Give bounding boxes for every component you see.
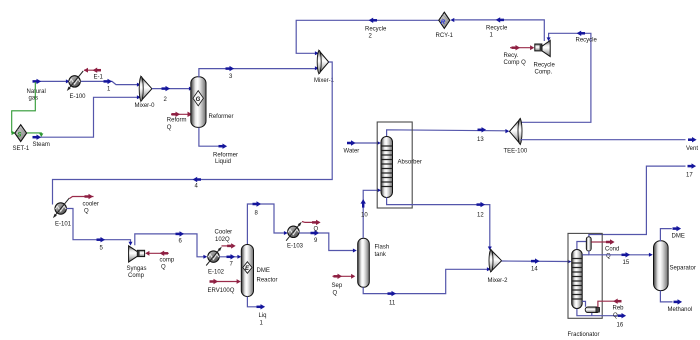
energy stream Recy Comp Q — [504, 45, 535, 66]
svg-text:Q: Q — [167, 125, 172, 131]
mixer Mixer-2 — [488, 250, 509, 284]
svg-text:Recycle: Recycle — [576, 38, 598, 44]
svg-text:Cond: Cond — [605, 247, 619, 253]
wire stream Liq 1 — [247, 297, 266, 327]
heat exchanger E-103 — [286, 222, 304, 250]
wire stream 9 — [299, 230, 357, 252]
svg-text:RCY-1: RCY-1 — [436, 33, 454, 39]
svg-text:102Q: 102Q — [215, 237, 230, 243]
mixer Mixer-0 — [135, 76, 156, 109]
svg-text:S: S — [17, 133, 21, 139]
energy stream comp Q — [145, 251, 175, 271]
svg-text:Recycle: Recycle — [365, 27, 387, 33]
column Fractionator tower — [572, 250, 583, 309]
svg-text:Mixer-1: Mixer-1 — [314, 78, 335, 84]
wire stream 3 — [199, 66, 319, 80]
svg-text:Q: Q — [84, 209, 89, 215]
svg-text:TEE-100: TEE-100 — [504, 149, 528, 155]
svg-text:Comp Q: Comp Q — [504, 60, 527, 66]
condenser (Fractionator) — [577, 237, 591, 251]
svg-text:Comp: Comp — [128, 273, 145, 279]
energy stream Q (E-103) — [302, 220, 321, 233]
svg-text:Mixer-2: Mixer-2 — [488, 278, 509, 284]
svg-text:Methanol: Methanol — [668, 307, 693, 313]
svg-text:Liq: Liq — [259, 313, 267, 319]
svg-text:Reform: Reform — [167, 118, 187, 124]
svg-text:cooler: cooler — [83, 202, 99, 208]
svg-text:Fractionator: Fractionator — [568, 332, 600, 338]
wire stream 6 — [135, 231, 208, 259]
svg-text:10: 10 — [361, 212, 368, 218]
wire stream 10 — [361, 188, 382, 238]
vessel Separator — [654, 241, 696, 291]
compressor Syngas Comp — [127, 246, 147, 279]
svg-text:16: 16 — [617, 323, 624, 329]
svg-text:G: G — [196, 97, 201, 103]
svg-text:Q: Q — [613, 313, 618, 319]
wire stream 11 — [363, 267, 491, 306]
svg-text:Recy.: Recy. — [504, 53, 519, 59]
svg-text:Sep: Sep — [332, 283, 343, 289]
column Fractionator (box) — [568, 233, 603, 338]
energy stream Cooler 102Q — [215, 230, 236, 249]
wire stream 4 — [53, 62, 333, 205]
tee TEE-100 — [504, 119, 528, 155]
reboiler (Fractionator) — [577, 301, 617, 315]
reactor Reformer — [191, 77, 234, 128]
svg-text:gas: gas — [29, 96, 39, 102]
svg-text:Reactor: Reactor — [257, 278, 278, 284]
mixer Mixer-1 — [314, 51, 335, 85]
svg-text:Flash: Flash — [375, 245, 390, 251]
energy stream Cond Q — [591, 239, 619, 259]
wire stream 16 — [617, 313, 627, 329]
energy stream Reb Q — [598, 299, 624, 320]
svg-text:Vent: Vent — [686, 146, 698, 152]
wire stream 13 — [387, 127, 510, 143]
energy stream Reform Q — [167, 112, 193, 131]
svg-text:E-101: E-101 — [55, 222, 72, 228]
wire stream 1 — [80, 79, 140, 93]
svg-text:15: 15 — [623, 260, 630, 266]
wire stream Recycle 1 — [450, 17, 544, 41]
svg-text:E-102: E-102 — [208, 270, 225, 276]
wire stream 12 — [387, 197, 492, 250]
energy stream Sep Q — [332, 274, 356, 297]
energy stream E-1 — [84, 68, 104, 81]
vessel Flash tank — [358, 238, 389, 287]
compressor Recycle Comp — [534, 40, 556, 75]
logical operator SET-1 — [13, 125, 30, 152]
svg-text:SET-1: SET-1 — [13, 146, 30, 152]
svg-text:ERV100Q: ERV100Q — [208, 288, 235, 294]
svg-text:Cooler: Cooler — [215, 230, 233, 236]
svg-text:Reb: Reb — [613, 306, 625, 312]
wire stream 5 — [67, 209, 133, 252]
heat exchanger E-101 — [53, 198, 72, 227]
heat exchanger E-102 — [206, 247, 224, 276]
wire stream Water — [344, 140, 381, 154]
wire stream Natural gas — [27, 79, 70, 102]
svg-text:Steam: Steam — [33, 142, 50, 148]
svg-text:Liquid: Liquid — [215, 159, 231, 165]
svg-text:Q: Q — [333, 290, 338, 296]
svg-text:Separator: Separator — [670, 266, 696, 272]
svg-text:E-100: E-100 — [70, 94, 87, 100]
svg-text:Q: Q — [161, 265, 166, 271]
wire stream 17 — [589, 163, 696, 236]
wire stream Methanol — [660, 291, 692, 314]
svg-text:Absorber: Absorber — [398, 160, 422, 166]
svg-text:tank: tank — [375, 252, 387, 258]
column Absorber — [377, 122, 422, 208]
wire stream 8 — [247, 201, 287, 244]
svg-text:Recycle: Recycle — [486, 26, 508, 32]
svg-text:Water: Water — [344, 149, 360, 155]
recycle operator RCY-1 — [436, 12, 454, 39]
svg-text:14: 14 — [531, 267, 538, 273]
wire stream 7 — [220, 254, 242, 267]
svg-text:R: R — [441, 20, 446, 26]
wire stream 2 — [152, 86, 193, 103]
svg-text:17: 17 — [686, 173, 693, 179]
heat exchanger E-100 — [67, 71, 86, 100]
svg-text:12: 12 — [477, 213, 484, 219]
svg-text:Reformer: Reformer — [209, 114, 234, 120]
wire stream 15 — [582, 251, 653, 266]
wire stream Reformer Liquid — [199, 128, 238, 166]
svg-text:11: 11 — [389, 301, 396, 307]
svg-text:DME: DME — [257, 268, 270, 274]
SET connection wires (green) — [12, 82, 44, 137]
svg-text:E-103: E-103 — [287, 244, 304, 250]
svg-text:DME: DME — [672, 233, 685, 239]
svg-text:Syngas: Syngas — [127, 266, 147, 272]
reactor DME Reactor — [241, 245, 277, 297]
svg-text:comp: comp — [160, 258, 175, 264]
wire stream DME — [660, 226, 684, 241]
wire stream Recycle 2 — [296, 18, 439, 56]
svg-text:Recycle: Recycle — [534, 63, 556, 69]
svg-text:13: 13 — [477, 137, 484, 143]
svg-text:Natural: Natural — [27, 89, 46, 95]
wire stream Steam — [33, 95, 141, 148]
svg-text:E-1: E-1 — [94, 75, 104, 81]
energy stream ERV100Q — [208, 279, 241, 294]
energy stream cooler Q — [70, 194, 99, 215]
svg-text:Comp.: Comp. — [535, 70, 553, 76]
svg-text:Reformer: Reformer — [213, 153, 238, 159]
wire stream Recycle (tee to compressor) — [520, 31, 597, 123]
svg-text:Mixer-0: Mixer-0 — [135, 103, 156, 109]
wire stream 14 — [502, 258, 572, 272]
wire stream Vent — [520, 137, 698, 152]
